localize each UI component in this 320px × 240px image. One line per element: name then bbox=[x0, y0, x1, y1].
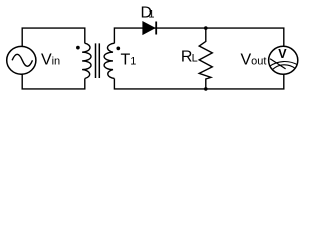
svg-text:out: out bbox=[251, 55, 266, 67]
svg-text:1: 1 bbox=[130, 55, 136, 67]
svg-text:in: in bbox=[52, 56, 61, 68]
svg-text:T: T bbox=[121, 51, 131, 68]
svg-text:V: V bbox=[240, 51, 251, 68]
svg-text:L: L bbox=[192, 53, 198, 65]
svg-text:1: 1 bbox=[148, 9, 154, 21]
svg-text:V: V bbox=[41, 52, 52, 69]
svg-text:V: V bbox=[278, 47, 287, 61]
